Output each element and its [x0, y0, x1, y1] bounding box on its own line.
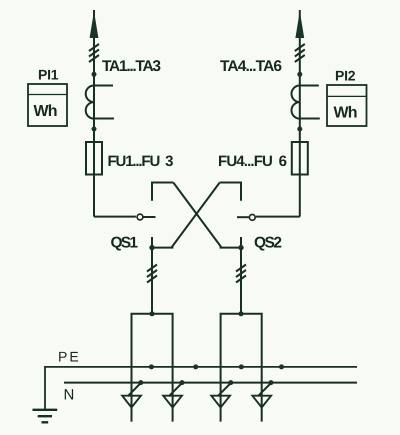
svg-text:FU4...FU 6: FU4...FU 6 — [218, 153, 287, 170]
svg-text:FU1...FU 3: FU1...FU 3 — [108, 153, 174, 170]
svg-text:PI2: PI2 — [335, 68, 356, 84]
svg-text:Wh: Wh — [334, 105, 358, 122]
svg-text:Wh: Wh — [34, 103, 58, 120]
svg-text:N: N — [64, 387, 75, 404]
svg-text:TA4...TA6: TA4...TA6 — [220, 58, 282, 75]
svg-text:QS1: QS1 — [111, 235, 139, 252]
svg-text:PI1: PI1 — [38, 67, 59, 83]
svg-text:TA1...TA3: TA1...TA3 — [102, 58, 161, 75]
svg-text:PE: PE — [58, 349, 81, 365]
svg-text:QS2: QS2 — [254, 235, 282, 252]
